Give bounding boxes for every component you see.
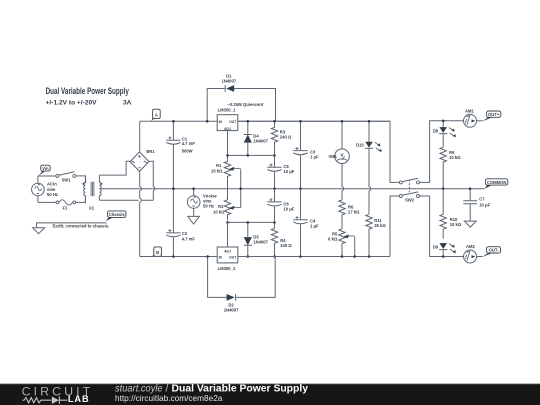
resistor R10: [440, 189, 446, 239]
junction dots left: [172, 120, 175, 123]
OUT+ net flag: [482, 111, 501, 121]
svg-text:AM2: AM2: [466, 244, 476, 249]
junction dot D1-IN: [206, 120, 209, 123]
resistor R11: [366, 214, 372, 256]
node B flag: [152, 247, 161, 257]
resistor R9: [440, 147, 446, 188]
wire: SW2b to AM2 branch: [420, 196, 464, 257]
svg-text:LAB: LAB: [68, 394, 90, 404]
ground (earth/chassis): [33, 228, 45, 234]
OUT- net flag: [482, 247, 500, 257]
capacitor C6: [267, 189, 281, 223]
ADJ2 rail wire: [228, 221, 275, 223]
svg-text:SW2: SW2: [405, 198, 415, 203]
fuse F1: [56, 200, 76, 205]
svg-text:D8: D8: [433, 129, 439, 134]
resistor R4: [271, 222, 277, 256]
chassis wire: [37, 223, 107, 228]
capacitor C1: [166, 121, 180, 188]
svg-text:500W: 500W: [182, 148, 193, 153]
diode D2 bypass wire: [208, 257, 276, 298]
potentiometer R2: [224, 189, 240, 221]
svg-text:OUT: OUT: [229, 256, 237, 260]
switch SW2 upper: [399, 178, 419, 184]
wire: bridge + up to top rail: [139, 121, 141, 151]
svg-text:ADJ: ADJ: [224, 127, 231, 131]
svg-text:10 kΩ: 10 kΩ: [450, 222, 462, 227]
AC source V1 (ACin): [32, 176, 45, 202]
svg-text:C7: C7: [479, 197, 485, 202]
svg-text:Vin: Vin: [42, 166, 49, 171]
ADJ1 rail wire: [228, 154, 275, 156]
svg-text:240 Ω: 240 Ω: [280, 135, 292, 140]
svg-text:1N4007: 1N4007: [224, 308, 239, 313]
diode D1 bypass wire: [207, 89, 275, 122]
wire: secondary top to bridge: [99, 161, 130, 175]
ammeter AM1: [464, 114, 477, 127]
svg-text:R2: R2: [218, 204, 224, 209]
hop D10 over common: [369, 148, 371, 214]
capacitor C5: [267, 155, 281, 188]
svg-text:+/-1.2V to +/-20V: +/-1.2V to +/-20V: [46, 100, 98, 107]
core: [91, 182, 94, 196]
svg-text:10 kΩ: 10 kΩ: [211, 169, 223, 174]
wire: AM2 to OUT-: [477, 256, 483, 258]
svg-text:~0.25W Quiescent: ~0.25W Quiescent: [227, 102, 264, 107]
svg-text:1N4007: 1N4007: [253, 240, 268, 245]
wiper wire R5: [354, 237, 356, 257]
svg-text:6 kΩ: 6 kΩ: [328, 237, 338, 242]
switch SW1: [56, 172, 76, 178]
wire: source bottom to F1: [38, 201, 56, 203]
svg-text:1N4007: 1N4007: [253, 139, 268, 144]
svg-text:50 Hz: 50 Hz: [203, 204, 214, 209]
wire: bottom rail bend up to SW2b: [390, 196, 399, 257]
svg-text:IN: IN: [219, 256, 223, 260]
Chassis net flag: [106, 211, 126, 221]
diode D1: [225, 85, 234, 92]
CircuitLab logo: [22, 384, 94, 404]
bridge rectifier BR1: [130, 152, 149, 172]
wire: secondary center tap to common rail: [99, 188, 140, 190]
potentiometer R1: [224, 155, 240, 188]
wire: OUT to rail: [238, 120, 390, 122]
COMMON net flag: [485, 179, 508, 189]
capacitor C3: [293, 121, 307, 188]
svg-text:4.7 mF: 4.7 mF: [182, 236, 196, 241]
ground (C7): [464, 221, 476, 227]
svg-text:OUT: OUT: [229, 120, 237, 124]
regulator U2 LM350_2: [217, 247, 238, 263]
wire: source top to SW1: [38, 175, 56, 177]
resistor R3: [271, 121, 277, 155]
svg-text:COMMON: COMMON: [487, 180, 507, 185]
gang link (dashed): [408, 180, 410, 195]
svg-text:SW1: SW1: [62, 177, 72, 182]
hop: [140, 187, 142, 191]
svg-text:AM1: AM1: [465, 108, 475, 113]
hop VM1 over common: [342, 164, 344, 201]
svg-text:OUT-: OUT-: [489, 248, 500, 253]
svg-text:http://circuitlab.com/cem8e2a: http://circuitlab.com/cem8e2a: [115, 393, 223, 403]
diode D2: [227, 294, 236, 301]
svg-text:BR1: BR1: [146, 149, 155, 154]
wire: bridge ac2 right and down (hops over common and secondary-bottom): [142, 161, 154, 200]
primary coil: [84, 176, 86, 203]
svg-text:240 Ω: 240 Ω: [280, 243, 292, 248]
regulator U1 LM350_1: [217, 115, 238, 131]
capacitor C2: [166, 189, 180, 257]
svg-text:10 kΩ: 10 kΩ: [449, 155, 461, 160]
svg-text:Chassis: Chassis: [109, 212, 126, 217]
common rail (wire): [141, 188, 485, 190]
svg-text:50 Hz: 50 Hz: [47, 192, 58, 197]
svg-text:LM350_1: LM350_1: [218, 108, 236, 113]
bottom rail (wire): [140, 256, 218, 258]
svg-text:B: B: [156, 250, 159, 255]
node A flag: [151, 109, 160, 121]
svg-text:3A: 3A: [123, 100, 132, 107]
svg-text:D10: D10: [356, 142, 364, 147]
wire: SW1 to primary: [76, 176, 86, 183]
ammeter AM2: [464, 250, 477, 263]
svg-text:R1: R1: [216, 163, 222, 168]
wire: secondary bottom to bridge ac2: [99, 199, 138, 201]
wiper link wire R1-R2: [240, 169, 242, 208]
hop: [153, 187, 155, 191]
wire: F1 to primary bottom: [76, 196, 86, 203]
LED D9: [439, 243, 456, 256]
wire: OUT2 to rail: [238, 256, 390, 258]
svg-text:10 μF: 10 μF: [283, 207, 294, 212]
svg-text:1 μF: 1 μF: [310, 224, 319, 229]
wire: top rail bend down to SW2a: [390, 121, 399, 182]
ground (Vnoise): [188, 216, 200, 224]
transformer X1: [83, 175, 103, 203]
svg-text:10 μF: 10 μF: [479, 202, 490, 207]
LED D10: [365, 121, 382, 152]
svg-text:27 kΩ: 27 kΩ: [348, 210, 360, 215]
svg-text:A: A: [155, 112, 158, 117]
hop: [140, 198, 142, 202]
wire: ADJ2 to LM350_2: [227, 222, 229, 247]
footer bar: [0, 384, 540, 405]
switch SW2 lower: [399, 192, 419, 198]
svg-text:ADJ: ADJ: [224, 249, 231, 253]
voltmeter VM1: [335, 121, 350, 163]
svg-text:10 kΩ: 10 kΩ: [213, 209, 225, 214]
svg-text:Earth, connected to chassis.: Earth, connected to chassis.: [53, 223, 110, 228]
wire: AM1 to OUT+: [477, 120, 483, 122]
svg-text:1N4007: 1N4007: [221, 79, 236, 84]
wire: bridge - down to bottom rail (hops over common, ac wire): [139, 171, 141, 257]
svg-text:D9: D9: [433, 245, 439, 250]
wire: ADJ down: [227, 131, 229, 156]
svg-text:Dual Variable Power Supply: Dual Variable Power Supply: [46, 86, 129, 96]
voltage source Vnoise: [187, 189, 200, 217]
capacitor C4: [293, 189, 307, 257]
LED D8: [439, 121, 456, 147]
svg-text:OUT+: OUT+: [488, 112, 500, 117]
secondary coil: [99, 175, 101, 200]
top rail (wire): [140, 120, 390, 122]
svg-text:10 μF: 10 μF: [283, 169, 294, 174]
svg-text:LM350_2: LM350_2: [218, 266, 236, 271]
potentiometer R5: [339, 229, 355, 257]
svg-text:IN: IN: [219, 120, 223, 124]
svg-text:VM1: VM1: [328, 154, 337, 159]
resistor R6: [339, 200, 345, 229]
diode D5: [244, 222, 252, 256]
svg-text:4.7 mF: 4.7 mF: [182, 141, 196, 146]
svg-text:1 μF: 1 μF: [310, 155, 319, 160]
wire: SW2a to AM1 branch: [420, 121, 464, 183]
diode D4: [244, 121, 252, 155]
svg-text:X1: X1: [89, 206, 95, 211]
Vin net flag: [38, 165, 50, 176]
svg-text:F1: F1: [63, 205, 69, 210]
svg-text:26 kΩ: 26 kΩ: [374, 223, 386, 228]
capacitor C7: [463, 189, 477, 221]
